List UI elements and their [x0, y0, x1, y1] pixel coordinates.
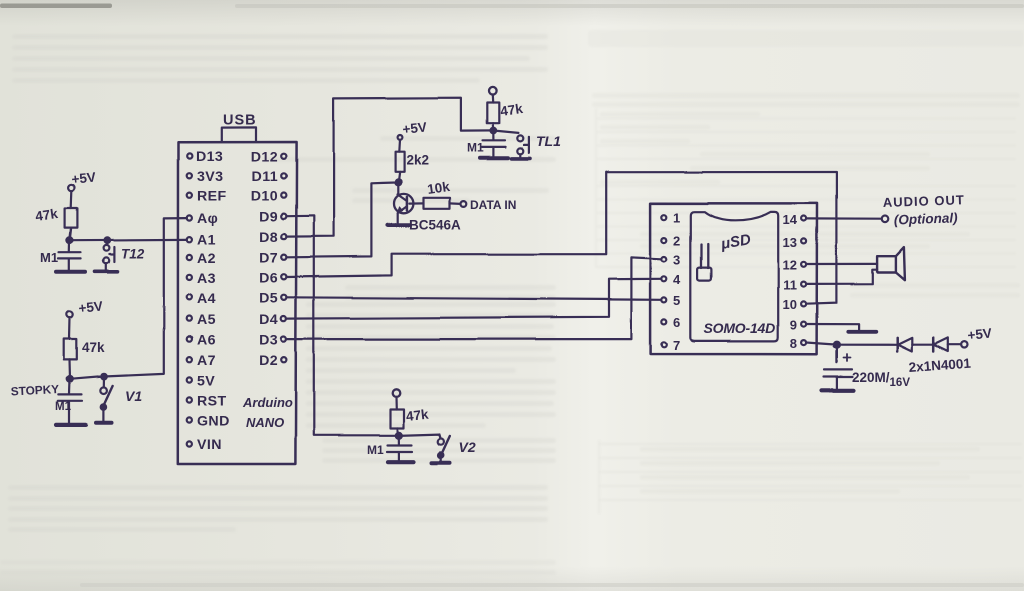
- svg-text:REF: REF: [197, 189, 227, 205]
- svg-text:14: 14: [783, 212, 798, 227]
- capacitor M1 (V2 group): [387, 435, 412, 459]
- capacitor M1 (T12 group): [58, 240, 81, 270]
- svg-text:47k: 47k: [34, 206, 59, 224]
- wire: [948, 344, 961, 346]
- svg-text:3: 3: [673, 253, 680, 268]
- node T12 junction: [104, 237, 110, 243]
- svg-text:VIN: VIN: [197, 437, 222, 453]
- svg-text:2: 2: [673, 234, 680, 249]
- svg-text:12: 12: [783, 258, 797, 273]
- microSD card outline: [691, 212, 778, 342]
- svg-text:10k: 10k: [426, 179, 451, 197]
- ground: [388, 223, 411, 227]
- svg-text:3V3: 3V3: [197, 169, 223, 185]
- ground: [57, 422, 87, 426]
- svg-text:5V: 5V: [197, 374, 215, 390]
- ground: [57, 270, 86, 274]
- svg-text:8: 8: [790, 336, 797, 351]
- diode D1 1N4001: [896, 338, 899, 352]
- svg-text:GND: GND: [197, 414, 230, 430]
- ground: [822, 388, 854, 392]
- svg-text:47k: 47k: [405, 407, 429, 424]
- speaker LS1: [878, 256, 896, 272]
- svg-text:D6: D6: [259, 271, 278, 287]
- top edge marks: [0, 4, 112, 9]
- wire: [68, 318, 71, 339]
- pin A4: [187, 295, 192, 300]
- svg-text:D4: D4: [259, 312, 278, 328]
- svg-text:+5V: +5V: [78, 299, 104, 316]
- wire: [450, 202, 461, 205]
- svg-text:USB: USB: [223, 113, 257, 129]
- node DATA IN terminal: [461, 201, 467, 207]
- SOMO pin 14: [801, 216, 806, 221]
- wire pin8 to diodes: [806, 343, 897, 345]
- svg-text:DATA IN: DATA IN: [470, 198, 516, 212]
- pin A6: [187, 337, 192, 342]
- svg-text:D11: D11: [252, 169, 278, 185]
- svg-text:Arduino: Arduino: [242, 395, 293, 410]
- svg-text:4: 4: [673, 272, 681, 287]
- pin A0: [187, 215, 192, 220]
- wire: [912, 344, 933, 346]
- wire: [399, 172, 400, 183]
- pin A5: [187, 316, 192, 321]
- pin D11: [281, 173, 286, 178]
- resistor 10k: [424, 198, 450, 209]
- wire D8 to TL1 node: [286, 98, 493, 237]
- node collector junction: [396, 179, 402, 185]
- power +5V terminal (T12 group): [68, 184, 74, 190]
- pin D4: [281, 316, 286, 321]
- resistor 2k2: [396, 152, 405, 172]
- pin D3: [281, 337, 286, 342]
- wire: [69, 228, 71, 241]
- svg-text:D13: D13: [196, 149, 223, 165]
- IC U2 SOMO-14D body: [651, 203, 817, 354]
- USB connector tab: [222, 127, 256, 142]
- wire D4 to SOMO pin4: [286, 279, 661, 319]
- switch V1: [103, 376, 105, 387]
- svg-text:AUDIO OUT: AUDIO OUT: [883, 192, 965, 210]
- microSD contact icon: [702, 244, 709, 268]
- svg-text:10: 10: [783, 297, 797, 312]
- node A1/RC junction: [66, 237, 72, 243]
- pin GND: [187, 417, 192, 422]
- svg-text:D10: D10: [251, 189, 278, 205]
- ground: [95, 269, 118, 273]
- pin A3: [187, 275, 192, 280]
- pin D6: [281, 274, 286, 279]
- svg-text:A6: A6: [197, 333, 216, 349]
- svg-text:D2: D2: [259, 353, 278, 369]
- wire pin12 to speaker: [806, 263, 878, 265]
- ground: [96, 420, 112, 424]
- wire D6 to SOMO pin10: [286, 172, 836, 304]
- pin A2: [187, 255, 192, 260]
- wire: [492, 123, 495, 130]
- svg-text:+5V: +5V: [402, 120, 428, 137]
- ground: [480, 156, 508, 160]
- pin D10: [281, 193, 286, 198]
- wire pin14 to AUDIO OUT: [806, 218, 882, 221]
- wire pin9 to pad: [806, 324, 859, 330]
- svg-text:1: 1: [673, 211, 680, 226]
- svg-text:D5: D5: [259, 291, 278, 307]
- svg-text:A4: A4: [197, 291, 216, 307]
- svg-text:5: 5: [673, 293, 680, 308]
- svg-text:+5V: +5V: [71, 170, 97, 187]
- node V2 junction: [396, 432, 402, 438]
- svg-text:A2: A2: [197, 251, 216, 267]
- power +5V terminal (TL1 group): [489, 87, 497, 95]
- svg-text:BC546A: BC546A: [409, 218, 461, 233]
- node TL1 junction: [491, 128, 497, 134]
- svg-text:SOMO-14D: SOMO-14D: [704, 320, 776, 336]
- pin A7: [187, 357, 192, 362]
- wire D9 to V2 node: [286, 216, 398, 435]
- SOMO pin 11: [801, 282, 806, 287]
- resistor 47k (TL1 group): [487, 103, 499, 123]
- power +5V terminal (V2 group): [392, 389, 400, 397]
- svg-text:NANO: NANO: [246, 415, 284, 430]
- SOMO pin 8: [801, 340, 806, 345]
- resistor 47k (STOPKY group): [64, 339, 77, 359]
- svg-text:7: 7: [673, 338, 680, 353]
- svg-text:9: 9: [790, 318, 797, 333]
- node V1 junction: [101, 373, 107, 379]
- switch T12: [105, 240, 108, 244]
- power +5V terminal (transistor group): [398, 135, 403, 140]
- SOMO pin 13: [801, 239, 806, 244]
- SOMO pin 4: [662, 276, 667, 281]
- svg-text:A5: A5: [197, 312, 216, 328]
- SOMO pin 6: [662, 319, 667, 324]
- SOMO pin 5: [662, 297, 667, 302]
- wire: [398, 140, 401, 152]
- capacitor M1 (TL1 group): [482, 131, 506, 157]
- wire pin11 to speaker: [806, 270, 878, 284]
- svg-text:D3: D3: [259, 333, 278, 349]
- pin D8: [281, 234, 286, 239]
- IC U1 Arduino NANO body: [178, 142, 297, 464]
- SOMO pin 10: [801, 301, 806, 306]
- pin D5: [281, 295, 286, 300]
- wire: [491, 95, 494, 103]
- svg-text:M1: M1: [367, 443, 384, 457]
- pin D12: [281, 154, 286, 159]
- svg-text:A7: A7: [197, 353, 216, 369]
- wire: [395, 396, 397, 409]
- pin REF: [187, 193, 192, 198]
- bleed-through text right page: [588, 30, 1024, 494]
- wire D5 to SOMO pin5: [286, 297, 661, 300]
- pin D2: [281, 357, 286, 362]
- SOMO pin 12: [801, 262, 806, 267]
- svg-text:V1: V1: [125, 388, 142, 404]
- pin A1: [187, 237, 192, 242]
- svg-text:A1: A1: [197, 233, 216, 249]
- pin VIN: [187, 441, 192, 446]
- power +5V terminal (diodes): [961, 342, 967, 348]
- svg-text:+5V: +5V: [967, 326, 993, 343]
- svg-text:M1: M1: [467, 141, 484, 155]
- ground pad (pin9): [848, 330, 876, 334]
- ground: [388, 460, 414, 464]
- svg-text:D12: D12: [251, 150, 278, 166]
- pin D9: [281, 214, 286, 219]
- svg-text:6: 6: [673, 315, 680, 330]
- SOMO pin 2: [662, 238, 667, 243]
- pin 5V: [187, 377, 192, 382]
- power +5V terminal (STOPKY group): [67, 311, 73, 317]
- svg-text:RST: RST: [197, 394, 227, 410]
- svg-text:M1: M1: [55, 401, 72, 413]
- svg-text:11: 11: [783, 278, 797, 293]
- capacitor 220M/16V: [824, 345, 853, 389]
- svg-text:47k: 47k: [499, 101, 524, 119]
- SOMO pin 1: [662, 215, 667, 220]
- svg-text:V2: V2: [459, 439, 476, 455]
- capacitor M1 (STOPKY group): [58, 379, 82, 423]
- diode D2 1N4001: [932, 338, 935, 352]
- node junction pin8/cap: [833, 342, 839, 348]
- node AUDIO OUT terminal: [882, 216, 889, 223]
- pin RST: [187, 397, 192, 402]
- svg-text:2k2: 2k2: [407, 153, 430, 168]
- resistor 47k (T12 group): [65, 208, 77, 228]
- svg-text:13: 13: [783, 235, 797, 250]
- svg-text:47k: 47k: [82, 340, 105, 355]
- svg-text:M1: M1: [40, 250, 58, 265]
- wire A1 to node: [69, 238, 187, 241]
- wire: [70, 191, 73, 208]
- SOMO pin 9: [801, 322, 806, 327]
- bleed-through text left page: [0, 34, 556, 575]
- svg-text:(Optional): (Optional): [894, 210, 959, 227]
- SOMO pin 7: [662, 342, 667, 347]
- wire base: [410, 202, 424, 204]
- resistor 47k (V2 group): [390, 409, 404, 428]
- ground: [512, 157, 531, 161]
- transistor Q1 BC546A: [398, 182, 400, 195]
- svg-text:Aφ: Aφ: [197, 211, 218, 227]
- svg-text:TL1: TL1: [536, 133, 561, 149]
- svg-text:T12: T12: [121, 247, 145, 262]
- ground: [432, 461, 450, 465]
- pin D7: [281, 255, 286, 260]
- svg-text:STOPKY: STOPKY: [10, 382, 59, 399]
- wire D3 to SOMO pin3: [286, 257, 661, 339]
- wire: [68, 359, 71, 378]
- svg-text:D7: D7: [259, 251, 278, 267]
- pin D13: [187, 153, 192, 158]
- wire D7 to transistor collector: [286, 183, 396, 258]
- SOMO pin 3: [662, 257, 667, 262]
- switch TL1: [493, 131, 518, 133]
- pin 3V3: [187, 173, 192, 178]
- svg-text:D9: D9: [259, 210, 278, 226]
- node STOPKY junction: [67, 376, 73, 382]
- wire: [397, 428, 399, 435]
- svg-text:D8: D8: [259, 230, 278, 246]
- svg-text:A3: A3: [197, 271, 216, 287]
- switch V2: [399, 434, 441, 438]
- wire A0 to STOPKY node: [70, 218, 187, 379]
